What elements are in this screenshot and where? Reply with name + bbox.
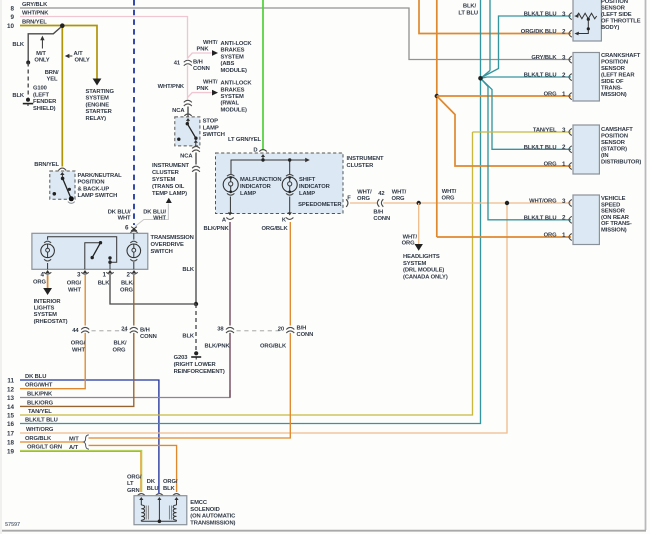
- junction BLK/LT BLU: [478, 76, 483, 81]
- wire ORG to vehicle speed sensor: [437, 236, 571, 238]
- svg-text:ORG: ORG: [544, 162, 557, 168]
- svg-text:MODULE): MODULE): [221, 107, 248, 113]
- svg-text:SOLENOID: SOLENOID: [190, 507, 219, 513]
- svg-text:CONN: CONN: [297, 332, 314, 338]
- throttle position sensor: [573, 0, 601, 41]
- svg-text:SYSTEM: SYSTEM: [34, 312, 58, 318]
- resistor inside throttle sensor: [577, 13, 597, 19]
- svg-text:SENSOR: SENSOR: [601, 6, 626, 12]
- inline connector on BLK wire: [192, 166, 200, 168]
- malfunction indicator lamp U1: [227, 174, 234, 176]
- svg-text:(ON REAR: (ON REAR: [601, 215, 630, 221]
- svg-text:WHT/: WHT/: [442, 189, 457, 195]
- svg-text:BLK/LT BLU: BLK/LT BLU: [524, 216, 557, 222]
- svg-text:TRANS-: TRANS-: [601, 85, 622, 91]
- svg-text:(DRL MODULE): (DRL MODULE): [403, 268, 444, 274]
- overdrive lamp left: [44, 241, 51, 243]
- vehicle speed sensor: [573, 195, 599, 245]
- wire ORG interior lights: [47, 275, 49, 289]
- svg-text:42: 42: [378, 191, 384, 197]
- svg-text:SPEEDOMETER: SPEEDOMETER: [298, 202, 342, 208]
- svg-text:3: 3: [562, 11, 566, 18]
- svg-text:STARTING: STARTING: [86, 89, 115, 95]
- svg-text:A/T: A/T: [69, 445, 79, 451]
- svg-text:(RHEOSTAT): (RHEOSTAT): [34, 319, 68, 325]
- svg-text:LAMP SWITCH: LAMP SWITCH: [78, 193, 118, 199]
- svg-text:POSITION: POSITION: [601, 134, 628, 140]
- wire BRN/YEL line 10: [20, 26, 97, 81]
- svg-text:LT: LT: [127, 481, 134, 487]
- svg-text:41: 41: [174, 61, 181, 67]
- svg-text:TAN/YEL: TAN/YEL: [533, 128, 557, 134]
- svg-text:(ON AUTOMATIC: (ON AUTOMATIC: [190, 514, 236, 520]
- svg-text:WHT: WHT: [68, 287, 81, 293]
- svg-text:SWITCH: SWITCH: [151, 249, 173, 255]
- svg-text:BRN/YEL: BRN/YEL: [34, 162, 59, 168]
- svg-text:LAMP: LAMP: [240, 191, 256, 197]
- overdrive lamp right: [130, 241, 137, 243]
- svg-text:BLK/LT BLU: BLK/LT BLU: [524, 145, 557, 151]
- svg-text:B/H: B/H: [297, 325, 307, 331]
- svg-text:SHIELD): SHIELD): [33, 106, 56, 112]
- svg-text:ORG: ORG: [544, 92, 557, 98]
- svg-text:SENSOR: SENSOR: [601, 66, 626, 72]
- svg-text:INDICATOR: INDICATOR: [299, 184, 331, 190]
- svg-text:1: 1: [562, 161, 566, 168]
- svg-text:MISSION): MISSION): [601, 228, 627, 234]
- svg-text:BLK/LT BLU: BLK/LT BLU: [524, 12, 557, 18]
- wire BLK/ORG pin 2: [133, 275, 135, 326]
- svg-text:TRANSMISSION: TRANSMISSION: [151, 235, 194, 241]
- svg-text:BLK: BLK: [12, 42, 25, 48]
- svg-text:CONN: CONN: [140, 334, 157, 340]
- ground G100: [26, 98, 30, 102]
- svg-text:LT GRN/YEL: LT GRN/YEL: [228, 137, 262, 143]
- wire ORG/DK BLU to throttle sensor: [419, 0, 571, 34]
- svg-text:1: 1: [102, 272, 106, 279]
- wire WHT/ORG from pin F: [350, 202, 377, 204]
- svg-text:ORG: ORG: [113, 347, 126, 353]
- svg-text:SYSTEM: SYSTEM: [152, 177, 176, 183]
- arrow to HEADLIGHTS SYSTEM: [415, 244, 423, 251]
- svg-text:ORG/LT GRN: ORG/LT GRN: [27, 445, 62, 451]
- svg-text:LT BLU: LT BLU: [458, 11, 478, 17]
- wire ORG/WHT line 12: [20, 333, 85, 389]
- svg-text:INSTRUMENT: INSTRUMENT: [347, 156, 385, 162]
- svg-text:18: 18: [7, 440, 15, 447]
- wire BLK/LT BLU to vehicle speed sensor: [481, 78, 572, 220]
- svg-text:DK BLU: DK BLU: [25, 374, 46, 380]
- svg-text:PNK: PNK: [197, 86, 210, 92]
- svg-text:POSITION: POSITION: [601, 0, 628, 5]
- svg-text:GRN: GRN: [127, 488, 140, 494]
- svg-text:(CANADA ONLY): (CANADA ONLY): [403, 274, 448, 280]
- svg-text:ORG: ORG: [544, 233, 557, 239]
- svg-text:& BACK-UP: & BACK-UP: [78, 186, 110, 192]
- svg-text:ORG/: ORG/: [71, 341, 86, 347]
- wire BLK/ORG line 14: [20, 333, 134, 407]
- wire BLK/LT BLU to throttle sensor: [482, 16, 572, 78]
- svg-text:WHT/ORG: WHT/ORG: [26, 427, 54, 433]
- connector at EMCC pin 3: [173, 494, 180, 496]
- svg-text:OF TRANS-: OF TRANS-: [601, 221, 632, 227]
- svg-text:NCA: NCA: [180, 153, 193, 159]
- svg-text:WHT/: WHT/: [357, 190, 372, 196]
- svg-text:(RIGHT LOWER: (RIGHT LOWER: [174, 362, 217, 368]
- svg-text:15: 15: [7, 413, 15, 420]
- svg-text:BLK: BLK: [98, 281, 111, 287]
- connector link dashes 44-24: [92, 330, 128, 332]
- svg-text:ORG: ORG: [402, 240, 415, 246]
- svg-text:PARK/NEUTRAL: PARK/NEUTRAL: [78, 173, 123, 179]
- wire ORG/LT GRN line 19: [20, 450, 142, 492]
- wire BLK dashed to G203: [195, 304, 197, 351]
- svg-text:17: 17: [7, 431, 15, 438]
- wire BLK dashed to G100: [27, 63, 29, 99]
- coil L3: [174, 497, 178, 500]
- junction inside EMCC: [158, 520, 162, 524]
- svg-text:B/H: B/H: [140, 327, 150, 333]
- svg-text:SENSOR: SENSOR: [601, 209, 626, 215]
- svg-text:SYSTEM: SYSTEM: [221, 94, 245, 100]
- svg-text:BRN/YEL: BRN/YEL: [22, 20, 47, 26]
- svg-text:SPEED: SPEED: [601, 202, 620, 208]
- svg-text:SYSTEM: SYSTEM: [221, 54, 245, 60]
- svg-text:DK BLU/: DK BLU/: [108, 209, 131, 215]
- junction BLK: [194, 302, 198, 306]
- svg-text:44: 44: [72, 328, 79, 334]
- svg-text:ORG/: ORG/: [127, 474, 142, 480]
- wire BLK/LT BLU line 16: [20, 78, 481, 423]
- svg-text:2: 2: [126, 272, 130, 279]
- svg-text:FENDER: FENDER: [33, 99, 57, 105]
- svg-text:BLK/PNK: BLK/PNK: [205, 344, 231, 350]
- wire TAN/YEL line 15: [20, 132, 473, 415]
- svg-text:CLUSTER: CLUSTER: [347, 163, 375, 169]
- svg-text:OF THROTTLE: OF THROTTLE: [601, 19, 641, 25]
- svg-text:1: 1: [562, 91, 566, 98]
- svg-text:WHT/PNK: WHT/PNK: [22, 11, 49, 17]
- wire BLK/LT BLU upper vertical: [480, 0, 482, 78]
- svg-text:BLK: BLK: [182, 334, 195, 340]
- svg-text:WHT: WHT: [153, 216, 166, 222]
- svg-text:M/T: M/T: [69, 437, 79, 443]
- svg-text:GRY/BLK: GRY/BLK: [22, 2, 48, 8]
- svg-text:BLK: BLK: [12, 93, 25, 99]
- svg-text:STOP: STOP: [203, 119, 219, 125]
- wire DK BLU line 11: [20, 380, 159, 493]
- svg-text:RELAY): RELAY): [86, 116, 107, 122]
- wire ORG/BLK line 18: [20, 441, 84, 443]
- svg-text:SYSTEM: SYSTEM: [86, 96, 110, 102]
- svg-text:(ABS: (ABS: [221, 61, 235, 67]
- svg-text:(IN: (IN: [601, 153, 608, 159]
- svg-text:ORG: ORG: [442, 195, 455, 201]
- wire BLK/LT BLU second upper vertical: [489, 0, 491, 71]
- switch lever: [85, 243, 101, 270]
- connector 44: [80, 326, 90, 333]
- svg-text:BLK: BLK: [182, 267, 195, 273]
- brace splitting line 18: [84, 435, 89, 449]
- connector at EMCC pin 1: [138, 494, 145, 496]
- svg-text:MODULE): MODULE): [221, 68, 248, 74]
- svg-text:NCA: NCA: [172, 108, 185, 114]
- svg-text:WHT/: WHT/: [203, 40, 218, 46]
- connector NCA above stop lamp switch: [184, 100, 192, 102]
- wire ORG/BLK A/T branch to EMCC: [89, 445, 177, 492]
- wire WHT/ORG to headlights: [418, 203, 420, 246]
- wire WHT/ORG to speed sensor: [383, 202, 571, 204]
- svg-text:2: 2: [562, 72, 566, 79]
- svg-text:ORG: ORG: [120, 287, 133, 293]
- callout leader for DK BLU/WHT: [135, 204, 168, 227]
- svg-text:24: 24: [121, 327, 128, 333]
- wire WHT/PNK line 9: [20, 17, 188, 59]
- svg-text:ANTI-LOCK: ANTI-LOCK: [221, 41, 253, 47]
- svg-text:8: 8: [10, 6, 14, 13]
- svg-text:BLK/ORG: BLK/ORG: [27, 400, 54, 406]
- svg-text:ANTI-LOCK: ANTI-LOCK: [221, 81, 253, 87]
- svg-text:VEHICLE: VEHICLE: [601, 196, 626, 202]
- svg-text:ORG/DK BLU: ORG/DK BLU: [521, 29, 557, 35]
- svg-text:BRN/: BRN/: [45, 70, 59, 76]
- pin K: [289, 197, 291, 214]
- wire BLK from line 10 junction: [28, 27, 61, 63]
- svg-text:SIDE OF: SIDE OF: [601, 79, 624, 85]
- svg-text:ORG/BLK: ORG/BLK: [262, 226, 289, 232]
- wire inside cluster from pin D: [261, 154, 265, 157]
- svg-text:1: 1: [562, 232, 566, 239]
- wire BLK from stop lamp switch down: [195, 153, 197, 165]
- svg-text:BLK/: BLK/: [463, 4, 477, 10]
- svg-text:3: 3: [562, 198, 566, 205]
- svg-text:WHT: WHT: [72, 347, 85, 353]
- svg-text:(LEFT SIDE: (LEFT SIDE: [601, 12, 632, 18]
- svg-text:BLU: BLU: [147, 486, 159, 492]
- camshaft position sensor: [573, 125, 599, 174]
- arrow to INTERIOR LIGHTS SYSTEM: [43, 288, 52, 295]
- svg-text:TAN/YEL: TAN/YEL: [28, 409, 52, 415]
- svg-text:16: 16: [7, 421, 15, 428]
- switch wiring inside: [48, 237, 117, 262]
- svg-text:SENSOR: SENSOR: [601, 140, 626, 146]
- svg-text:TRANSMISSION): TRANSMISSION): [190, 520, 235, 526]
- svg-text:CLUSTER: CLUSTER: [152, 170, 180, 176]
- svg-text:TEMP LAMP): TEMP LAMP): [152, 191, 187, 197]
- svg-text:MISSION): MISSION): [601, 92, 627, 98]
- svg-text:ORG/: ORG/: [163, 479, 178, 485]
- svg-text:STARTER: STARTER: [86, 109, 113, 115]
- svg-text:GRY/BLK: GRY/BLK: [531, 55, 557, 61]
- svg-text:ORG/BLK: ORG/BLK: [25, 436, 52, 442]
- svg-text:ONLY: ONLY: [34, 58, 49, 64]
- svg-text:EMCC: EMCC: [190, 500, 208, 506]
- connector link dashes 38-20: [237, 330, 284, 332]
- pin A: [229, 197, 231, 214]
- svg-text:(TRANS OIL: (TRANS OIL: [152, 184, 185, 190]
- svg-text:2: 2: [562, 28, 566, 35]
- wire BLK pin 1 to junction: [110, 275, 196, 304]
- node D junction: [261, 158, 264, 161]
- junction WHT/ORG headlights: [417, 201, 421, 205]
- svg-text:9: 9: [10, 14, 14, 21]
- connector NCA below stop lamp switch: [192, 146, 200, 148]
- svg-text:BLK/: BLK/: [121, 281, 135, 287]
- connector at EMCC pin 2: [156, 494, 163, 496]
- svg-text:LAMP: LAMP: [203, 125, 219, 131]
- wire inside EMCC: [141, 520, 176, 522]
- junction WHT/ORG line 17: [505, 201, 509, 205]
- svg-text:WHT/: WHT/: [203, 80, 218, 86]
- transmission overdrive switch: [32, 233, 148, 269]
- coil L2: [157, 497, 161, 500]
- node shift lamp junction: [288, 158, 291, 161]
- junction on BLK wire: [26, 61, 30, 65]
- svg-text:POSITION: POSITION: [601, 59, 628, 65]
- svg-text:BLK: BLK: [163, 486, 176, 492]
- svg-text:(ENGINE: (ENGINE: [86, 102, 110, 108]
- svg-text:DK: DK: [147, 479, 156, 485]
- connector 20 B/H CONN: [285, 326, 295, 333]
- svg-text:B/H: B/H: [373, 209, 383, 215]
- svg-text:F: F: [347, 195, 351, 201]
- svg-text:WHT/PNK: WHT/PNK: [158, 84, 185, 90]
- svg-text:2: 2: [562, 215, 566, 222]
- wire BRN/YEL to park/neutral switch: [61, 26, 63, 167]
- svg-text:PNK: PNK: [197, 46, 210, 52]
- svg-text:ORG: ORG: [33, 280, 46, 286]
- svg-text:20: 20: [278, 327, 284, 333]
- wire WHT/PNK branch to RWAL: [188, 93, 212, 98]
- svg-text:SWITCH: SWITCH: [203, 132, 225, 138]
- svg-text:MALFUNCTION: MALFUNCTION: [240, 177, 281, 183]
- svg-text:ORG: ORG: [392, 196, 405, 202]
- wire ORG main vertical: [436, 0, 438, 237]
- wire TAN/YEL to camshaft (drawn in bus): [473, 131, 572, 133]
- svg-text:SHIFT: SHIFT: [299, 177, 316, 183]
- svg-text:WHT/ORG: WHT/ORG: [529, 199, 557, 205]
- svg-text:YEL: YEL: [47, 77, 59, 83]
- svg-text:2: 2: [562, 144, 566, 151]
- svg-text:13: 13: [7, 395, 15, 402]
- svg-text:CRANKSHAFT: CRANKSHAFT: [601, 53, 641, 59]
- svg-text:G203: G203: [174, 355, 189, 361]
- svg-text:INTERIOR: INTERIOR: [34, 299, 62, 305]
- connector 24 B/H CONN: [129, 326, 139, 333]
- svg-text:(LEFT REAR: (LEFT REAR: [601, 72, 635, 78]
- wire DK BLU/WHT dashed page break: [133, 0, 135, 225]
- wire ORG branch to camshaft sensor: [437, 96, 571, 166]
- instrument cluster: [216, 153, 344, 214]
- svg-text:DK BLU/: DK BLU/: [143, 209, 166, 215]
- arrow to ANTI-LOCK BRAKES (RWAL): [212, 90, 218, 96]
- svg-text:BLK/: BLK/: [113, 341, 127, 347]
- svg-text:3: 3: [562, 54, 566, 61]
- svg-text:HEADLIGHTS: HEADLIGHTS: [403, 254, 440, 260]
- svg-text:DISTRIBUTOR): DISTRIBUTOR): [601, 160, 641, 166]
- svg-text:(LEFT: (LEFT: [33, 92, 49, 98]
- svg-text:12: 12: [7, 386, 15, 393]
- wire BLK/LT BLU to crankshaft sensor: [481, 77, 572, 78]
- svg-text:10: 10: [7, 23, 15, 30]
- svg-text:INSTRUMENT: INSTRUMENT: [152, 163, 190, 169]
- svg-text:57597: 57597: [5, 522, 20, 528]
- wire ORG/BLK M/T branch to cluster pin K: [89, 222, 291, 438]
- svg-text:BODY): BODY): [601, 25, 619, 31]
- svg-text:3: 3: [77, 272, 81, 279]
- svg-text:WHT/: WHT/: [392, 190, 407, 196]
- A/T ONLY arrow: [68, 55, 73, 57]
- arrow to ANTI-LOCK BRAKES (ABS): [212, 50, 218, 56]
- svg-text:CONN: CONN: [193, 66, 210, 72]
- svg-text:WHT: WHT: [118, 216, 131, 222]
- connector 38: [225, 326, 235, 333]
- stop lamp switch: [175, 117, 200, 146]
- svg-text:ORG/: ORG/: [67, 281, 82, 287]
- shift indicator lamp U2: [286, 174, 293, 176]
- svg-text:38: 38: [217, 327, 224, 333]
- svg-text:BLK/PNK: BLK/PNK: [27, 392, 53, 398]
- svg-text:(STATOR): (STATOR): [601, 147, 627, 153]
- svg-text:M/T: M/T: [36, 51, 46, 57]
- wire GRY/BLK line 8: [20, 8, 571, 60]
- coil L1: [139, 497, 143, 500]
- arrow to STARTING SYSTEM: [93, 79, 102, 86]
- svg-text:INDICATOR: INDICATOR: [240, 184, 272, 190]
- wire ORG/WHT pin 3: [84, 275, 86, 326]
- crankshaft position sensor: [573, 53, 599, 102]
- wire BLK/PNK from pin A: [229, 222, 231, 398]
- wire BLK/PNK line 13: [20, 390, 230, 398]
- arrow up to instrument cluster system: [166, 198, 172, 203]
- svg-text:6: 6: [125, 225, 129, 232]
- svg-text:A/T: A/T: [74, 51, 84, 57]
- junction on line 10: [60, 23, 65, 28]
- wire WHT/PNK vertical: [187, 59, 189, 67]
- connector 41 B/H CONN: [183, 59, 192, 66]
- svg-text:ORG/WHT: ORG/WHT: [25, 383, 53, 389]
- wire BLK/LT BLU to camshaft sensor: [481, 78, 572, 149]
- svg-text:SYSTEM: SYSTEM: [403, 261, 427, 267]
- svg-text:BLK/LT BLU: BLK/LT BLU: [25, 418, 58, 424]
- svg-text:CAMSHAFT: CAMSHAFT: [601, 127, 633, 133]
- svg-text:19: 19: [7, 449, 15, 456]
- wire LT GRN/YEL: [262, 0, 264, 149]
- svg-text:3: 3: [562, 127, 566, 134]
- park/neutral position and back-up lamp switch: [50, 171, 75, 199]
- svg-text:LIGHTS: LIGHTS: [34, 306, 55, 312]
- junction ORG: [435, 94, 439, 98]
- svg-text:BLK/LT BLU: BLK/LT BLU: [524, 73, 557, 79]
- svg-text:ORG: ORG: [357, 196, 370, 202]
- EMCC solenoid: [134, 496, 187, 525]
- wire WHT/ORG line 17: [20, 203, 507, 433]
- svg-text:BRAKES: BRAKES: [221, 87, 245, 93]
- svg-text:BLK/PNK: BLK/PNK: [204, 226, 230, 232]
- svg-text:ONLY: ONLY: [75, 58, 90, 64]
- svg-text:G100: G100: [33, 86, 47, 92]
- svg-text:BRAKES: BRAKES: [221, 48, 245, 54]
- svg-text:(RWAL: (RWAL: [221, 101, 240, 107]
- svg-text:CONN: CONN: [373, 216, 390, 222]
- wire WHT/PNK branch to ABS: [188, 53, 212, 58]
- ground G203: [194, 351, 198, 355]
- wire BLK into stop lamp switch: [187, 107, 189, 118]
- M/T ONLY arrow: [41, 39, 43, 49]
- svg-text:REINFORCEMENT): REINFORCEMENT): [174, 369, 225, 375]
- svg-text:B/H: B/H: [193, 60, 203, 66]
- svg-text:POSITION: POSITION: [78, 180, 105, 186]
